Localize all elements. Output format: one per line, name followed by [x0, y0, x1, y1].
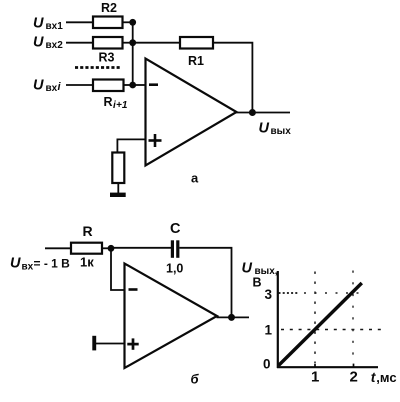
svg-text:б: б	[191, 372, 200, 387]
svg-text:U: U	[33, 16, 44, 32]
svg-text:U: U	[33, 35, 44, 51]
wire capacitor to output node	[179, 248, 231, 318]
op-amp U1 (circuit a)	[146, 59, 237, 166]
svg-text:U: U	[259, 121, 270, 137]
wire resistor to ground	[117, 183, 119, 193]
capacitor C (1,0)	[171, 240, 174, 257]
svg-text:вых: вых	[271, 126, 292, 137]
svg-text:вх: вх	[22, 262, 34, 273]
wire Ri+1 to node	[124, 84, 134, 86]
wire R3 to node	[123, 42, 134, 44]
ground (circuit a)	[110, 193, 126, 197]
wire noninverting input b	[96, 343, 125, 345]
svg-text:R: R	[104, 95, 113, 109]
node junction 2	[129, 39, 136, 46]
svg-text:вх1: вх1	[46, 21, 64, 32]
wire R2 to node	[123, 21, 134, 23]
svg-text:а: а	[191, 171, 199, 186]
op-amp a minus symbol	[149, 83, 158, 86]
wire feedback right run	[213, 43, 252, 113]
dotted gridline horizontal at 3 (dense near axis)	[279, 292, 300, 294]
op-amp b minus symbol	[129, 288, 138, 291]
svg-text:,мс: ,мс	[376, 370, 396, 385]
wire summing bus vertical	[132, 22, 134, 85]
wire output a	[236, 112, 290, 114]
op-amp a plus symbol	[149, 139, 162, 142]
wire R to node	[102, 247, 112, 249]
ellipsis dashed line	[75, 66, 121, 69]
wire node to inverting input	[111, 248, 125, 290]
svg-text:= - 1 В: = - 1 В	[34, 257, 71, 271]
dotted gridline vertical at t=1	[314, 272, 316, 364]
svg-text:U: U	[10, 256, 21, 272]
svg-text:R: R	[83, 223, 93, 239]
node output b	[228, 314, 235, 321]
svg-text:0: 0	[263, 357, 271, 372]
svg-text:В: В	[253, 276, 262, 290]
dotted gridline vertical at t=2	[352, 271, 354, 364]
wire noninverting input	[117, 139, 146, 152]
svg-text:1к: 1к	[80, 255, 94, 270]
x-axis	[277, 366, 378, 368]
wire input 2	[66, 42, 93, 44]
op-amp b plus symbol	[127, 343, 138, 346]
svg-text:+1: +1	[116, 100, 128, 111]
svg-text:3: 3	[265, 287, 273, 302]
x tick 2	[353, 364, 355, 367]
svg-text:вх: вх	[46, 83, 58, 94]
svg-text:R3: R3	[99, 51, 115, 65]
svg-text:вх2: вх2	[46, 40, 64, 51]
resistor R (1к)	[71, 243, 102, 254]
node output a	[249, 109, 256, 116]
node junction 1	[129, 19, 136, 26]
x tick 1	[314, 364, 316, 367]
resistor Ri+1	[93, 80, 124, 92]
op-amp U2 (circuit b)	[125, 264, 218, 369]
wire input 1	[66, 21, 93, 23]
resistor R3	[93, 37, 123, 49]
svg-text:R1: R1	[188, 54, 204, 68]
node after R	[108, 245, 115, 252]
wire input i	[66, 84, 93, 86]
svg-text:С: С	[170, 221, 181, 237]
resistor R2	[93, 17, 123, 29]
wire node to capacitor	[111, 247, 171, 249]
svg-text:U: U	[33, 78, 44, 94]
dotted gridline horizontal at 1	[281, 329, 382, 331]
dotted gridline horizontal at 3 (sparse)	[304, 292, 359, 294]
y-axis	[277, 271, 279, 368]
svg-text:1: 1	[265, 323, 273, 338]
svg-text:R2: R2	[101, 1, 117, 15]
output ramp line	[279, 283, 362, 366]
svg-text:1: 1	[311, 369, 319, 386]
ground bar (noninverting input b)	[92, 336, 96, 351]
wire input b	[45, 247, 71, 249]
svg-text:U: U	[242, 261, 253, 277]
wire bus to op-amp inverting input	[133, 84, 146, 86]
resistor (noninverting to ground)	[112, 153, 124, 184]
wire output b	[217, 316, 250, 318]
svg-text:2: 2	[350, 369, 358, 386]
node junction 3	[129, 82, 136, 89]
wire feedback top run	[133, 42, 180, 44]
svg-text:1,0: 1,0	[166, 262, 183, 276]
svg-text:i: i	[58, 81, 62, 93]
resistor R1	[180, 37, 213, 49]
